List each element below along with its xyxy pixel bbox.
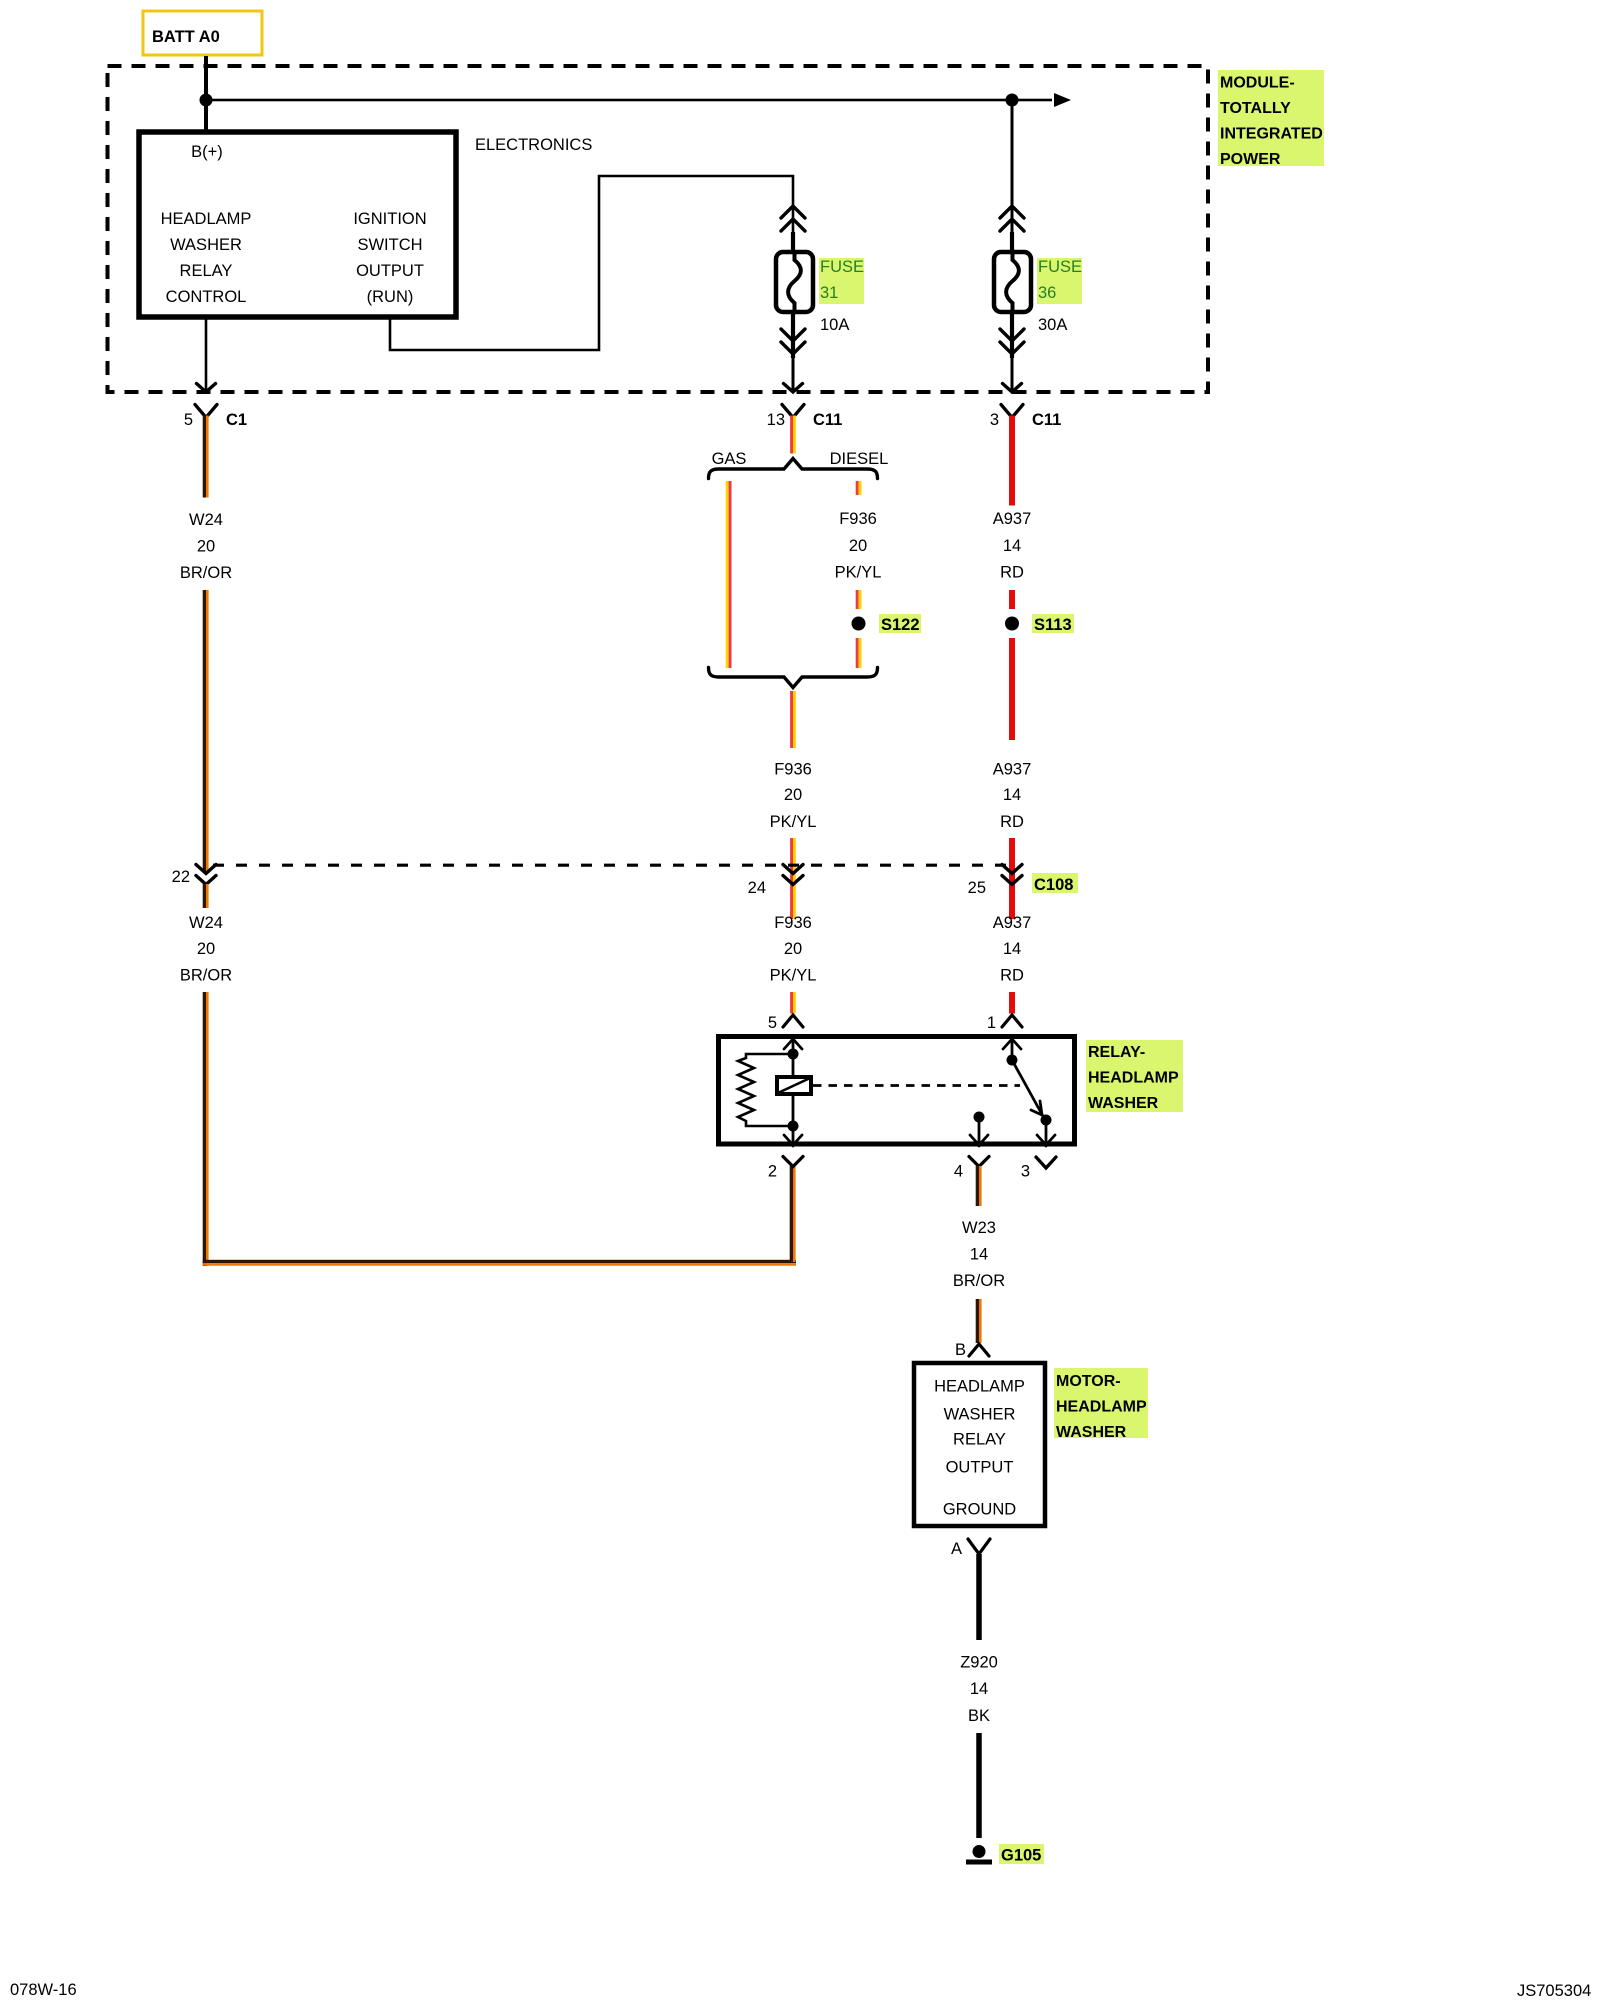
svg-text:INTEGRATED: INTEGRATED (1220, 126, 1323, 143)
wire below fuse 36 with chevrons and module exit arrow (1000, 312, 1024, 392)
svg-text:C11: C11 (813, 411, 842, 429)
wire A937 above splice (1009, 590, 1015, 609)
text HEADLAMP WASHER RELAY OUTPUT / GROUND (934, 1378, 1025, 1519)
wire Z920 lower segment (BK) (976, 1733, 982, 1838)
relay coil element (777, 1077, 811, 1094)
svg-text:BR/OR: BR/OR (180, 967, 232, 985)
wire gas branch (PK/YL) (726, 481, 732, 668)
svg-text:C108: C108 (1034, 876, 1073, 894)
svg-text:DIESEL: DIESEL (830, 450, 889, 468)
svg-text:OUTPUT: OUTPUT (356, 262, 424, 280)
svg-text:C11: C11 (1032, 411, 1061, 429)
svg-text:WASHER: WASHER (944, 1406, 1016, 1424)
svg-text:RD: RD (1000, 967, 1024, 985)
svg-text:20: 20 (784, 940, 802, 958)
wire return leg horizontal (BR/OR) (203, 1260, 796, 1266)
motor box (914, 1363, 1045, 1526)
branch bracket GAS / DIESEL (709, 450, 889, 479)
svg-text:POWER: POWER (1220, 151, 1281, 168)
svg-text:F936: F936 (774, 914, 812, 932)
svg-text:RD: RD (1000, 564, 1024, 582)
wire ignition switch output routed to fuse 31 (390, 176, 793, 350)
wire W24 upper segment (BR/OR) (203, 416, 209, 498)
svg-text:W23: W23 (962, 1219, 996, 1237)
svg-text:WASHER: WASHER (170, 236, 242, 254)
svg-text:3: 3 (1021, 1163, 1030, 1181)
svg-text:IGNITION: IGNITION (353, 210, 426, 228)
wire battery bus horizontal with arrow (206, 99, 1052, 102)
svg-text:PK/YL: PK/YL (835, 564, 882, 582)
wire below fuse 31 with chevrons and module exit arrow (781, 312, 805, 392)
svg-text:SWITCH: SWITCH (357, 236, 422, 254)
connector C108 pin 24 (748, 865, 803, 898)
junction dot coil bottom (788, 1121, 799, 1132)
label W24 20 BR/OR (lower) (180, 914, 232, 985)
svg-text:30A: 30A (1038, 316, 1067, 334)
svg-text:4: 4 (954, 1163, 963, 1181)
wire Z920 upper segment (BK) (976, 1554, 982, 1640)
connector C108 pin 22 (172, 865, 216, 887)
svg-text:PK/YL: PK/YL (770, 967, 817, 985)
wire W23 to motor pin B (976, 1299, 982, 1343)
svg-text:RELAY-: RELAY- (1088, 1044, 1145, 1061)
relay pin 2 connector (768, 1157, 803, 1181)
label FUSE 36 30A (1037, 258, 1082, 334)
resistor (relay suppression) (738, 1054, 793, 1126)
wire thick lead above fuse 31 (791, 232, 795, 252)
wire A937 below splice (1009, 638, 1015, 740)
wire W24 long segment to C108 with arrow (203, 590, 209, 872)
svg-text:JS705304: JS705304 (1517, 1982, 1591, 2000)
relay pin 4 connector (954, 1157, 989, 1181)
svg-text:20: 20 (197, 538, 215, 556)
svg-text:A: A (951, 1540, 962, 1558)
label A937 14 RD (upper) (993, 510, 1032, 582)
label Z920 14 BK (960, 1654, 998, 1726)
motor pin B connector (955, 1341, 989, 1359)
svg-text:FUSE: FUSE (1038, 258, 1082, 276)
wire W23 from relay pin 4 (BR/OR) (976, 1166, 982, 1206)
wire F936 merged segment (790, 691, 796, 748)
svg-text:F936: F936 (774, 761, 812, 779)
svg-text:B: B (955, 1341, 966, 1359)
svg-text:5: 5 (184, 411, 193, 429)
svg-text:PK/YL: PK/YL (770, 813, 817, 831)
wire thick lead above fuse 36 (1010, 232, 1014, 252)
wire diesel branch stub (PK/YL) (856, 481, 862, 495)
junction dot battery node (200, 94, 213, 107)
label W24 20 BR/OR (upper) (180, 511, 232, 582)
wire A937 upper segment (RD) (1009, 416, 1015, 506)
wire headlamp washer relay control with module exit arrow (197, 317, 216, 392)
svg-text:HEADLAMP: HEADLAMP (934, 1378, 1025, 1396)
svg-text:(RUN): (RUN) (367, 288, 414, 306)
relay pin 1 connector (987, 1014, 1022, 1032)
svg-text:S113: S113 (1034, 616, 1072, 634)
label W23 14 BR/OR (953, 1219, 1005, 1290)
svg-text:22: 22 (172, 868, 190, 886)
wire diesel below splice (856, 638, 862, 668)
relay switch contact to pin 3 (1037, 1115, 1055, 1147)
connector C11 pin 3 (990, 405, 1062, 430)
ground G105 (966, 1844, 1044, 1865)
svg-text:A937: A937 (993, 510, 1032, 528)
label RELAY-HEADLAMP WASHER (1086, 1040, 1183, 1112)
svg-text:BR/OR: BR/OR (953, 1272, 1005, 1290)
wire battery feed vertical (204, 56, 208, 132)
svg-text:RD: RD (1000, 813, 1024, 831)
current chevrons above fuse 31 (781, 206, 805, 231)
svg-text:14: 14 (1003, 537, 1021, 555)
fuse F31 symbol (776, 252, 813, 312)
svg-text:A937: A937 (993, 914, 1032, 932)
svg-text:36: 36 (1038, 284, 1056, 302)
svg-text:B(+): B(+) (191, 143, 223, 161)
wire return leg up to relay pin 2 (BR/OR) (790, 1166, 796, 1262)
svg-text:HEADLAMP: HEADLAMP (1056, 1399, 1147, 1416)
wire A937 to C108 with arrow (1009, 838, 1015, 919)
svg-text:RELAY: RELAY (180, 262, 233, 280)
svg-text:3: 3 (990, 411, 999, 429)
label F936 20 PK/YL (merged) (770, 761, 817, 832)
svg-text:10A: 10A (820, 316, 849, 334)
wire A937 to relay pin 1 (1009, 992, 1015, 1014)
svg-text:WASHER: WASHER (1056, 1424, 1127, 1441)
relay actuation dashed link (813, 1084, 1020, 1087)
svg-text:ELECTRONICS: ELECTRONICS (475, 136, 592, 154)
relay pin 4 internal stub (970, 1112, 988, 1147)
motor pin A connector (951, 1539, 990, 1558)
relay switch blade with arrowhead (1012, 1060, 1044, 1118)
wire W24 below C108 (203, 884, 209, 908)
relay switch: pin1 conductor (1003, 1039, 1021, 1066)
svg-text:31: 31 (820, 284, 838, 302)
svg-text:13: 13 (767, 411, 785, 429)
branch bracket merge (bottom) (709, 668, 878, 688)
wire from bus to fuse 36 (1011, 100, 1014, 232)
svg-text:MOTOR-: MOTOR- (1056, 1373, 1121, 1390)
svg-text:14: 14 (1003, 940, 1021, 958)
svg-text:HEADLAMP: HEADLAMP (1088, 1070, 1179, 1087)
svg-text:F936: F936 (839, 510, 877, 528)
svg-text:1: 1 (987, 1014, 996, 1032)
svg-text:CONTROL: CONTROL (166, 288, 247, 306)
svg-text:20: 20 (784, 786, 802, 804)
svg-text:GAS: GAS (712, 450, 747, 468)
svg-text:25: 25 (968, 879, 986, 897)
svg-text:TOTALLY: TOTALLY (1220, 100, 1291, 117)
text HEADLAMP WASHER RELAY CONTROL (161, 210, 252, 306)
svg-text:14: 14 (970, 1246, 988, 1264)
relay coil branch: vertical conductor pin5 to pin2 (784, 1039, 802, 1146)
svg-text:BR/OR: BR/OR (180, 564, 232, 582)
current chevrons above fuse 36 (1000, 206, 1024, 231)
svg-text:2: 2 (768, 1163, 777, 1181)
junction dot coil top (788, 1049, 799, 1060)
splice S122 (852, 614, 922, 634)
svg-text:Z920: Z920 (960, 1654, 998, 1672)
module boundary (dashed) TIPM (108, 66, 1209, 392)
wire F936 stub below C11 pin 13 (PK/YL) (790, 416, 796, 454)
svg-text:A937: A937 (993, 761, 1032, 779)
label F936 20 PK/YL (diesel branch) (835, 510, 882, 582)
relay pin 3 connector (1021, 1157, 1056, 1181)
svg-text:C1: C1 (226, 411, 247, 429)
wire diesel stub above splice (856, 590, 862, 609)
connector C1 pin 5 (184, 405, 247, 430)
svg-text:RELAY: RELAY (953, 1431, 1006, 1449)
svg-text:FUSE: FUSE (820, 258, 864, 276)
connector C11 pin 13 (767, 405, 843, 430)
connector C108 dashed line (213, 864, 1008, 867)
svg-text:WASHER: WASHER (1088, 1095, 1159, 1112)
label F936 20 PK/YL (lower) (770, 914, 817, 985)
svg-text:MODULE-: MODULE- (1220, 75, 1295, 92)
label MODULE-TOTALLY INTEGRATED POWER (1218, 70, 1324, 168)
svg-text:14: 14 (970, 1680, 988, 1698)
battery feed label box BATT A0 (143, 11, 262, 55)
TIPM electronics box (139, 132, 456, 317)
svg-text:W24: W24 (189, 511, 223, 529)
svg-text:BK: BK (968, 1707, 990, 1725)
svg-text:14: 14 (1003, 786, 1021, 804)
label A937 14 RD (lower) (993, 914, 1032, 985)
label FUSE 31 10A (819, 258, 864, 334)
relay box (719, 1037, 1075, 1145)
svg-text:20: 20 (849, 537, 867, 555)
connector C108 pin 25 (968, 865, 1022, 898)
junction dot fuse 36 tap (1006, 94, 1019, 107)
relay pin 5 connector (768, 1014, 803, 1032)
splice S113 (1005, 614, 1074, 634)
fuse F36 symbol (994, 252, 1031, 312)
svg-text:OUTPUT: OUTPUT (946, 1459, 1014, 1477)
wire W24 long return leg down (203, 992, 209, 1266)
svg-text:5: 5 (768, 1014, 777, 1032)
svg-text:078W-16: 078W-16 (10, 1981, 77, 1999)
svg-text:24: 24 (748, 879, 766, 897)
svg-text:HEADLAMP: HEADLAMP (161, 210, 252, 228)
svg-text:20: 20 (197, 940, 215, 958)
svg-text:G105: G105 (1001, 1847, 1041, 1865)
label C108 (1032, 873, 1078, 894)
svg-text:GROUND: GROUND (943, 1501, 1016, 1519)
label MOTOR-HEADLAMP WASHER (1054, 1368, 1148, 1441)
svg-text:W24: W24 (189, 914, 223, 932)
svg-text:BATT A0: BATT A0 (152, 28, 220, 46)
svg-text:S122: S122 (881, 616, 920, 634)
label A937 14 RD (middle) (993, 761, 1032, 832)
wire F936 to relay pin 5 (790, 992, 796, 1014)
wire F936 to C108 (790, 838, 796, 919)
text IGNITION SWITCH OUTPUT (RUN) (353, 210, 426, 306)
